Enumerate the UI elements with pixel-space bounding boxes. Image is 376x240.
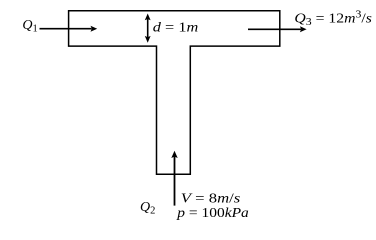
svg-text:Q1: Q1 — [22, 18, 37, 35]
svg-text:V = 8m/s: V = 8m/s — [181, 192, 241, 207]
svg-text:Q2: Q2 — [140, 200, 155, 217]
svg-text:d = 1m: d = 1m — [153, 21, 199, 36]
svg-text:p = 100kPa: p = 100kPa — [176, 206, 249, 221]
svg-text:Q3 = 12m3/s: Q3 = 12m3/s — [294, 10, 372, 28]
